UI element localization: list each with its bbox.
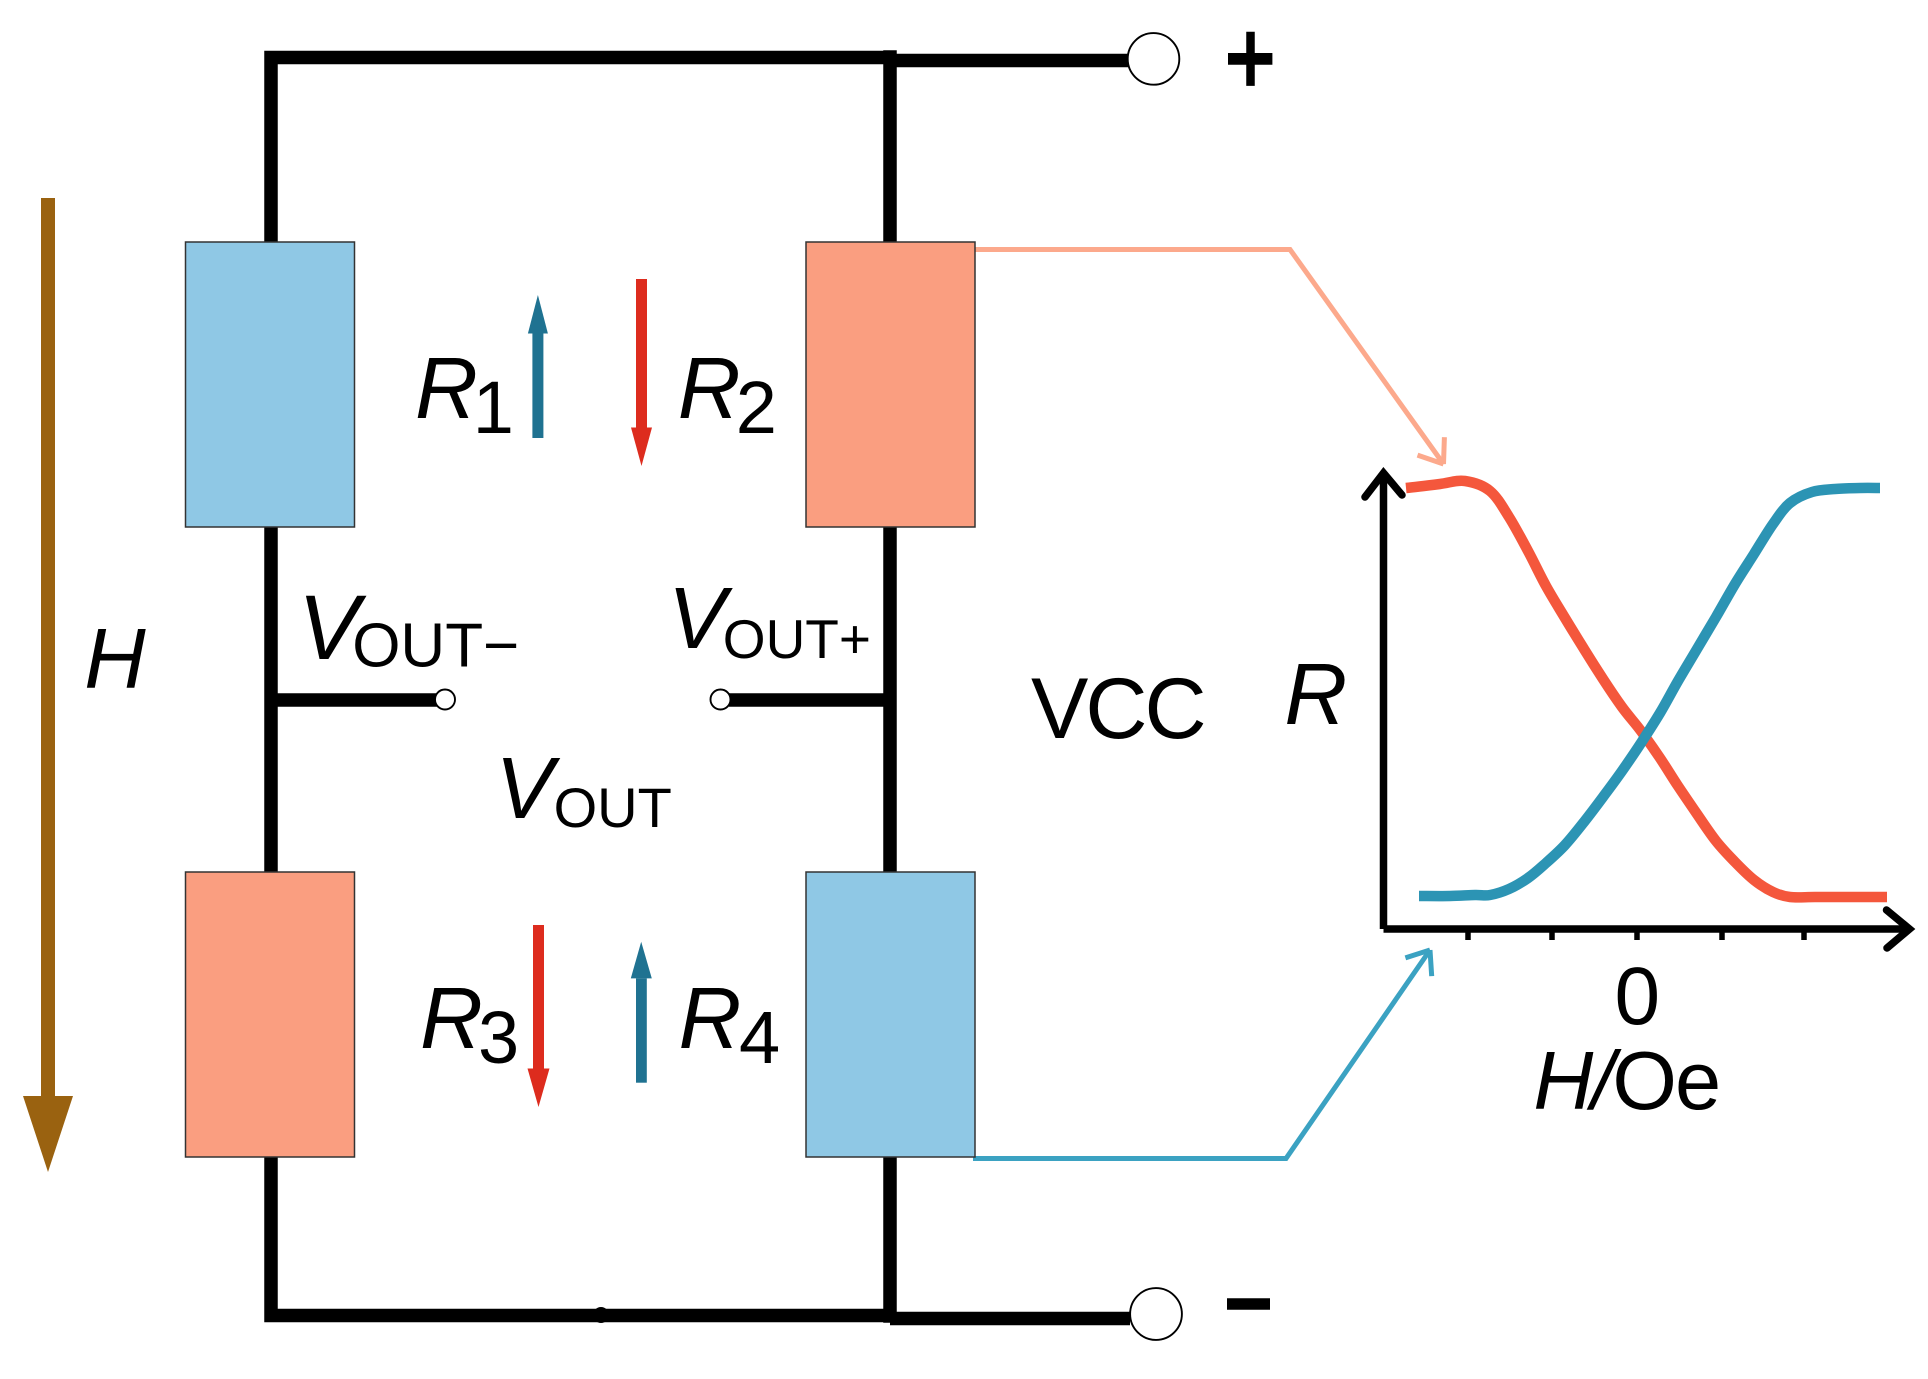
resistor R4 (blue) (806, 872, 975, 1157)
field arrow H (brown) (23, 198, 73, 1172)
resistor R3 (salmon) (186, 872, 355, 1157)
wire right branch middle (883, 527, 897, 872)
minus sign (1227, 1298, 1270, 1310)
svg-text:VCC: VCC (1031, 661, 1204, 757)
graph y-axis arrowhead (1365, 473, 1402, 497)
arrow down (red) beside R2 (631, 279, 652, 466)
arrow up (teal) beside R4 (631, 942, 652, 1083)
graph x-axis (1384, 925, 1905, 933)
svg-text:H: H (84, 612, 146, 707)
terminal - circle (1130, 1288, 1182, 1340)
connector arrow from R4 to blue curve (teal) (973, 950, 1432, 1159)
plus sign (1228, 32, 1272, 86)
resistor R1 (blue) (186, 242, 355, 527)
graph x-axis arrowhead (1887, 910, 1910, 948)
graph x ticks (1468, 929, 1804, 940)
wire right branch top (883, 50, 897, 242)
wire top rail with left branch (271, 58, 896, 243)
svg-text:R: R (1284, 646, 1347, 743)
wire VOUT- stub (271, 693, 437, 706)
graph red curve (R2/R3 response) (1406, 481, 1887, 898)
terminal + circle (1128, 33, 1180, 85)
junction dot on bottom rail (593, 1307, 609, 1323)
svg-text:H/Oe: H/Oe (1533, 1034, 1719, 1127)
resistor R2 (salmon) (806, 242, 975, 527)
node VOUT+ open circle (711, 690, 731, 710)
wire VOUT+ stub (729, 693, 890, 706)
wire terminal lead bottom (890, 1312, 1130, 1326)
node VOUT- open circle (435, 690, 455, 710)
graph y-axis (1380, 478, 1388, 929)
svg-text:0: 0 (1615, 951, 1661, 1042)
wire terminal lead top (890, 54, 1129, 68)
arrow down (red) beside R3 (528, 925, 550, 1107)
wire left branch middle (264, 527, 278, 872)
arrow up (teal) beside R1 (528, 295, 548, 438)
graph blue curve (R1/R4 response) (1419, 488, 1880, 896)
wire bottom rail with left branch (271, 1157, 896, 1316)
connector arrow from R2 to red curve (salmon) (950, 250, 1444, 465)
wire right branch bottom (883, 1157, 897, 1323)
